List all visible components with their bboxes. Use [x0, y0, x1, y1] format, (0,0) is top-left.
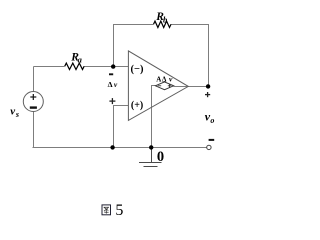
svg-text:(−): (−)	[131, 64, 144, 75]
svg-text:(+): (+)	[131, 100, 143, 111]
svg-text:s: s	[15, 110, 19, 119]
svg-text:0: 0	[157, 149, 164, 165]
svg-text:Δ: Δ	[162, 76, 167, 84]
svg-text:a: a	[78, 55, 83, 65]
svg-text:Δ: Δ	[108, 80, 113, 89]
svg-text:b: b	[163, 14, 167, 24]
svg-text:v: v	[169, 75, 173, 84]
svg-text:v: v	[10, 105, 15, 117]
svg-text:v: v	[114, 80, 118, 89]
svg-text:A: A	[156, 76, 161, 84]
svg-text:o: o	[210, 116, 214, 125]
svg-text:5: 5	[115, 202, 123, 219]
